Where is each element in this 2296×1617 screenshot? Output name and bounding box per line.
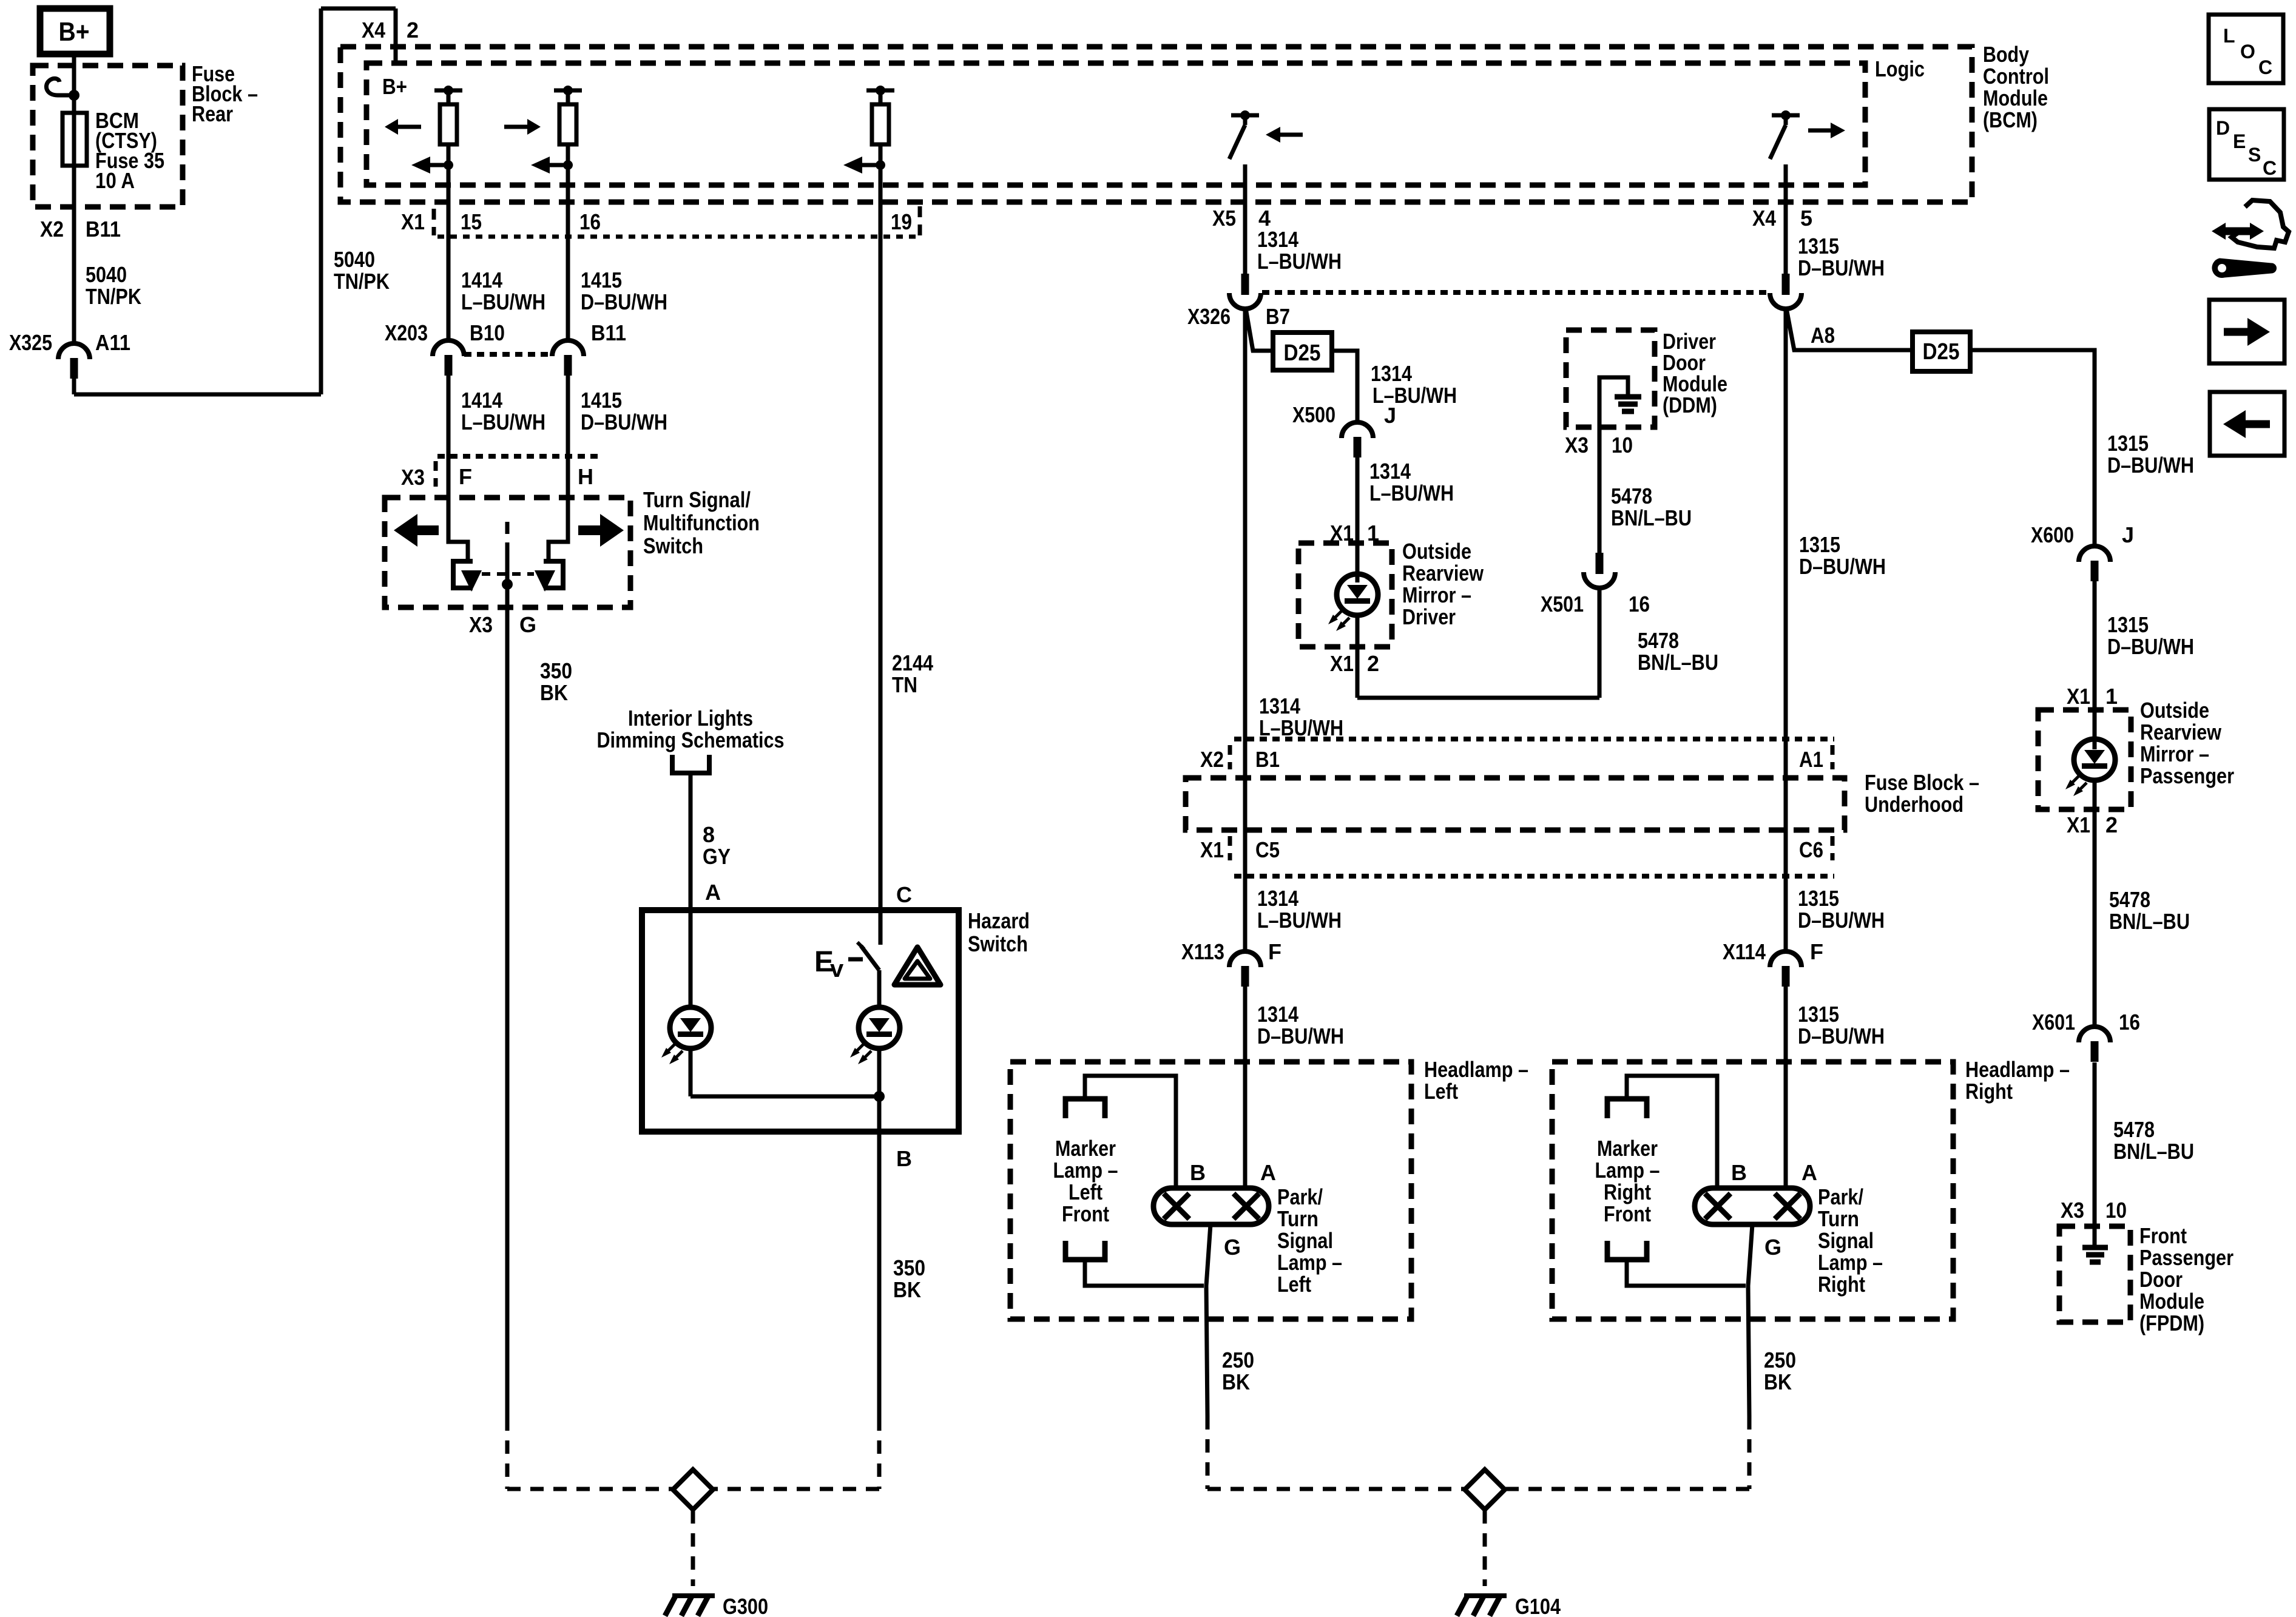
arrow left-turn (solid) (417, 525, 439, 535)
svg-text:L: L (2223, 25, 2235, 47)
icon box DESC (2209, 109, 2284, 180)
switch common link (dashed) with junction (505, 522, 510, 551)
svg-text:Right: Right (1965, 1079, 2013, 1104)
svg-text:BN/L–BU: BN/L–BU (1638, 650, 1718, 675)
wire 1414 L-BU/WH X203 to switch F (447, 374, 451, 542)
svg-text:X2: X2 (40, 217, 64, 241)
wire D25 to X500 (1332, 351, 1357, 421)
svg-text:X4: X4 (1752, 206, 1776, 231)
connector X203 pin B10 (433, 340, 464, 356)
dashed wire splice to G104 (1483, 1510, 1487, 1586)
svg-text:1415: 1415 (581, 388, 622, 413)
wire 1314 through fuse block (left) (1243, 739, 1248, 876)
svg-text:1315: 1315 (1799, 532, 1840, 557)
svg-text:350: 350 (893, 1255, 925, 1280)
svg-text:D25: D25 (1923, 339, 1960, 365)
svg-text:5: 5 (1800, 206, 1812, 231)
arrow right-turn (solid) (578, 525, 600, 535)
ground symbol inside FPDM (2082, 1226, 2108, 1262)
svg-text:X114: X114 (1723, 939, 1766, 964)
svg-text:Switch: Switch (643, 533, 703, 558)
switch contact right (H) (535, 498, 568, 592)
svg-text:(DDM): (DDM) (1663, 393, 1717, 417)
svg-text:Signal: Signal (1277, 1228, 1333, 1253)
svg-text:5040: 5040 (334, 247, 375, 272)
svg-text:G: G (519, 612, 536, 637)
svg-text:Passenger: Passenger (2139, 1245, 2234, 1270)
svg-text:C6: C6 (1799, 837, 1823, 862)
component box Outside Rearview Mirror - Passenger (2038, 710, 2131, 809)
wire A inside hazard switch (689, 910, 693, 1007)
svg-text:1315: 1315 (2107, 612, 2149, 637)
svg-text:X501: X501 (1541, 592, 1584, 616)
svg-text:O: O (2240, 41, 2255, 62)
switch BCM left-turn driver (pin X5-4) (1229, 110, 1259, 202)
svg-text:5478: 5478 (2113, 1117, 2155, 1142)
svg-text:Right: Right (1818, 1272, 1865, 1297)
marker lamp element Left Front (1065, 1099, 1105, 1260)
wire B+ to fuse (72, 95, 76, 113)
connector X326 pin A8 (1782, 274, 1790, 295)
hazard triangle icon (894, 947, 940, 985)
svg-text:1314: 1314 (1369, 459, 1411, 484)
svg-text:Front: Front (1604, 1201, 1651, 1226)
splice diamond (G104 feed) (1465, 1470, 1505, 1510)
svg-text:Outside: Outside (1402, 539, 1471, 564)
svg-text:X4: X4 (362, 18, 385, 42)
svg-text:X601: X601 (2032, 1010, 2075, 1035)
svg-text:D25: D25 (1284, 340, 1321, 366)
svg-text:C5: C5 (1255, 837, 1280, 862)
svg-text:Rearview: Rearview (2140, 720, 2222, 744)
svg-text:5478: 5478 (1611, 484, 1652, 508)
svg-text:X1: X1 (1330, 651, 1354, 676)
svg-text:Park/: Park/ (1277, 1184, 1323, 1209)
svg-text:BK: BK (1222, 1369, 1250, 1394)
connector X2 line (fuse block underhood) (1230, 739, 1834, 769)
svg-text:D–BU/WH: D–BU/WH (581, 289, 667, 314)
svg-text:Headlamp –: Headlamp – (1965, 1057, 2070, 1082)
svg-text:Mirror –: Mirror – (1402, 582, 1471, 607)
svg-text:A1: A1 (1799, 747, 1823, 772)
svg-text:19: 19 (891, 209, 912, 234)
svg-text:Rear: Rear (192, 101, 233, 126)
wire 350 BK from switch to splice (505, 632, 510, 1417)
svg-text:Passenger: Passenger (2140, 763, 2234, 788)
svg-text:Door: Door (2139, 1267, 2183, 1292)
svg-text:F: F (459, 464, 472, 489)
svg-text:A: A (705, 880, 721, 905)
wire 1315 through fuse block (right) (1784, 739, 1788, 876)
svg-text:Switch: Switch (968, 931, 1028, 956)
svg-text:D–BU/WH: D–BU/WH (1257, 1024, 1344, 1048)
wire fuse to X2 pin B11 (72, 166, 76, 343)
connector X1 line (fuse block underhood) (1230, 836, 1834, 876)
svg-text:1315: 1315 (1798, 234, 1839, 258)
wire marker lamp to ground run (right) (1627, 1260, 1746, 1286)
wire 1314 L-BU/WH C5 to X113 (1243, 876, 1248, 951)
wire 1415 D-BU/WH X203 to switch H (566, 374, 570, 542)
icon service tool (arrow + wrench) (2212, 200, 2289, 278)
svg-text:B10: B10 (470, 320, 505, 345)
svg-text:L–BU/WH: L–BU/WH (1257, 249, 1342, 274)
svg-text:1314: 1314 (1257, 1002, 1298, 1027)
wire from B+ into fuse block (72, 54, 76, 95)
svg-text:Hazard: Hazard (968, 908, 1030, 933)
svg-text:X500: X500 (1292, 402, 1335, 427)
resistor R-hazard (BCM internal) (843, 86, 894, 174)
svg-text:Lamp –: Lamp – (1053, 1158, 1118, 1183)
connector X601 pin 16 (2079, 1027, 2110, 1042)
component box Driver Door Module (DDM) (1566, 330, 1655, 427)
svg-text:BK: BK (1764, 1369, 1792, 1394)
svg-text:D–BU/WH: D–BU/WH (2107, 453, 2194, 478)
connector X114 pin F (1770, 951, 1801, 967)
ground symbol inside DDM (1599, 377, 1641, 427)
svg-text:X2: X2 (1200, 747, 1224, 772)
LED indicator lamp right (hazard) (850, 1007, 900, 1064)
svg-text:1315: 1315 (1798, 886, 1839, 911)
svg-text:BN/L–BU: BN/L–BU (2109, 909, 2190, 934)
svg-text:X113: X113 (1181, 939, 1224, 964)
svg-text:Marker: Marker (1055, 1136, 1116, 1161)
svg-text:A11: A11 (95, 330, 130, 355)
svg-text:X3: X3 (469, 612, 493, 637)
svg-text:Interior Lights: Interior Lights (628, 706, 753, 731)
svg-text:X203: X203 (385, 320, 428, 345)
component box Headlamp - Left (1010, 1062, 1411, 1319)
svg-text:B11: B11 (86, 217, 121, 241)
svg-text:Left: Left (1069, 1180, 1102, 1204)
svg-text:BK: BK (893, 1277, 921, 1302)
svg-text:16: 16 (1629, 592, 1650, 616)
svg-text:Front: Front (2139, 1223, 2187, 1248)
arrow left (BCM output indicator) (398, 125, 421, 129)
wire branch to splice D25 (passenger) (1786, 308, 1913, 350)
svg-text:350: 350 (540, 658, 572, 683)
svg-text:1414: 1414 (461, 268, 502, 292)
svg-text:D: D (2216, 117, 2230, 139)
svg-text:10: 10 (2105, 1198, 2127, 1223)
svg-text:15: 15 (461, 209, 482, 234)
switch contact left (F) (448, 498, 482, 592)
wire 1315 main feed to fuse block underhood (1784, 308, 1788, 739)
fuse BCM (CTSY) Fuse 35 10A (62, 113, 87, 166)
splice diamond (G300 feed) (673, 1470, 713, 1510)
marker lamp element Right Front (1607, 1099, 1647, 1260)
icon box LOC (2209, 15, 2283, 83)
wire 1314 X500 to mirror driver (1356, 457, 1360, 582)
svg-text:Left: Left (1424, 1079, 1458, 1104)
wire park/turn B to marker lamp (left) (1085, 1076, 1176, 1188)
component box Fuse Block - Underhood (1186, 778, 1845, 830)
wire 1315 X600 to passenger mirror (2093, 581, 2097, 749)
svg-text:S: S (2248, 144, 2261, 166)
wire mirror X1-2 down (1356, 615, 1360, 698)
wire 5478 BN/L-BU X501 to DDM (1598, 427, 1602, 553)
park/turn signal lamp right (dual filament) (1695, 1188, 1810, 1224)
resistor R-right-turn (BCM internal) (531, 86, 582, 174)
svg-text:Lamp –: Lamp – (1277, 1250, 1342, 1275)
svg-text:2: 2 (1367, 651, 1379, 676)
svg-text:X3: X3 (401, 465, 425, 490)
svg-text:J: J (2122, 522, 2134, 547)
svg-text:B7: B7 (1266, 304, 1290, 329)
svg-text:Mirror –: Mirror – (2140, 741, 2209, 766)
wire 250 BK right lamp to splice (1748, 1224, 1752, 1416)
svg-text:Turn: Turn (1277, 1206, 1319, 1231)
svg-text:1314: 1314 (1259, 694, 1300, 718)
svg-text:X3: X3 (2061, 1198, 2084, 1223)
svg-text:X600: X600 (2031, 522, 2074, 547)
arrow right (BCM output indicator) (504, 125, 527, 129)
svg-text:10 A: 10 A (95, 168, 135, 193)
icon box arrow right (2209, 300, 2284, 363)
ground G300 (665, 1596, 715, 1616)
component box Outside Rearview Mirror - Driver (1298, 543, 1392, 647)
svg-text:v: v (830, 956, 844, 982)
svg-text:1314: 1314 (1257, 886, 1298, 911)
svg-text:1315: 1315 (2107, 431, 2149, 456)
svg-text:L–BU/WH: L–BU/WH (1369, 481, 1454, 505)
wire 1414 L-BU/WH pin 15 to X203 B10 (447, 165, 451, 342)
svg-text:Lamp –: Lamp – (1818, 1250, 1883, 1275)
svg-text:Signal: Signal (1818, 1228, 1874, 1253)
svg-text:D–BU/WH: D–BU/WH (2107, 634, 2194, 659)
connector X203 pin B11 (552, 340, 584, 356)
LED turn indicator (driver mirror) (1328, 574, 1378, 631)
LED indicator lamp left (hazard) (661, 1007, 711, 1064)
ground G104 (1457, 1596, 1507, 1616)
resistor R-left-turn (BCM internal) (411, 86, 462, 174)
svg-text:2: 2 (2105, 812, 2118, 837)
svg-text:C: C (2258, 56, 2272, 78)
wire junction inside hazard switch (690, 1095, 879, 1099)
wire 1315 D-BU/WH X114 to park/turn right (1784, 987, 1788, 1188)
dashed wire splice to G300 (691, 1510, 695, 1586)
component box Hazard Switch (642, 910, 959, 1132)
svg-text:Lamp –: Lamp – (1595, 1158, 1660, 1183)
svg-text:8: 8 (703, 822, 715, 847)
svg-text:C: C (896, 882, 912, 907)
connector X500 pin J (1342, 422, 1373, 438)
svg-text:(BCM): (BCM) (1983, 107, 2038, 132)
svg-text:F: F (1810, 939, 1823, 964)
wire park/turn B to marker lamp (right) (1627, 1076, 1717, 1188)
wire mirror to X601 (2093, 780, 2097, 1027)
svg-text:Headlamp –: Headlamp – (1424, 1057, 1528, 1082)
connector X600 pin J (2079, 546, 2110, 562)
svg-text:16: 16 (2119, 1010, 2140, 1035)
svg-text:X5: X5 (1212, 206, 1236, 231)
svg-text:D–BU/WH: D–BU/WH (1798, 1024, 1885, 1048)
svg-text:Logic: Logic (1875, 56, 1925, 81)
arrow (switch actuation) (1808, 129, 1831, 133)
svg-text:L–BU/WH: L–BU/WH (461, 289, 545, 314)
park/turn signal lamp left (dual filament) (1153, 1188, 1269, 1224)
svg-text:D–BU/WH: D–BU/WH (1798, 908, 1885, 933)
wire 250 BK left lamp to splice (1206, 1224, 1210, 1416)
svg-text:B: B (1190, 1160, 1206, 1185)
component box Turn Signal/Multifunction Switch (385, 498, 630, 607)
svg-text:Body: Body (1983, 42, 2029, 67)
svg-text:Dimming Schematics: Dimming Schematics (597, 727, 785, 752)
switch symbol Ev (hazard) (814, 910, 880, 982)
arrow (switch actuation) (1280, 133, 1303, 137)
svg-text:BN/L–BU: BN/L–BU (2113, 1139, 2194, 1164)
svg-text:1414: 1414 (461, 388, 502, 413)
svg-text:C: C (2263, 157, 2277, 179)
svg-text:250: 250 (1222, 1348, 1254, 1372)
svg-text:G104: G104 (1515, 1594, 1561, 1617)
svg-text:16: 16 (579, 209, 601, 234)
svg-text:X1: X1 (2067, 812, 2090, 837)
off-page bracket symbol (672, 755, 709, 773)
svg-text:TN/PK: TN/PK (334, 269, 390, 294)
switch BCM right-turn driver (pin X4-5) (1770, 110, 1800, 202)
svg-text:5040: 5040 (86, 262, 127, 287)
svg-text:E: E (2233, 130, 2246, 152)
svg-text:10: 10 (1612, 433, 1633, 457)
connector X325 pin A11 (58, 343, 90, 359)
svg-text:Rearview: Rearview (1402, 561, 1484, 586)
circuit breaker hook symbol (46, 78, 74, 95)
svg-text:G: G (1224, 1235, 1241, 1260)
svg-text:B+: B+ (59, 17, 90, 47)
svg-text:GY: GY (703, 844, 731, 869)
svg-text:Underhood: Underhood (1865, 792, 1963, 817)
svg-text:1415: 1415 (581, 268, 622, 292)
svg-text:X1: X1 (1200, 837, 1224, 862)
connector strip X1 pins 15,16,19 (434, 206, 920, 237)
svg-text:Marker: Marker (1597, 1136, 1658, 1161)
svg-text:Turn Signal/: Turn Signal/ (643, 487, 751, 512)
icon box arrow left (2210, 392, 2284, 456)
svg-text:B11: B11 (591, 320, 626, 345)
svg-text:D–BU/WH: D–BU/WH (581, 410, 667, 434)
svg-text:H: H (578, 464, 593, 489)
svg-text:B1: B1 (1255, 747, 1280, 772)
connector X326 pin B7 (1241, 274, 1249, 295)
svg-text:2: 2 (407, 18, 419, 42)
svg-text:1315: 1315 (1798, 1002, 1839, 1027)
svg-text:Module: Module (2139, 1289, 2204, 1314)
svg-text:G: G (1764, 1235, 1781, 1260)
connector X203 body line (464, 352, 552, 357)
svg-text:X1: X1 (401, 209, 425, 234)
svg-text:TN/PK: TN/PK (86, 284, 141, 309)
svg-text:Control: Control (1983, 64, 2049, 89)
svg-text:A: A (1260, 1160, 1276, 1185)
wire marker lamp to ground run (left) (1085, 1260, 1204, 1286)
svg-text:X325: X325 (9, 330, 52, 355)
wire 1314 L-BU/WH pin X5-4 to X326 B7 (1243, 164, 1248, 274)
wire 2144 TN pin 19 to hazard switch C (879, 165, 883, 945)
wire D25 to X600 (1970, 350, 2095, 545)
svg-text:TN: TN (892, 672, 917, 697)
svg-text:5478: 5478 (1638, 628, 1679, 653)
wire hazard B out (877, 1096, 882, 1152)
wire C to LED right (877, 970, 882, 1007)
splice box D25 (driver) (1273, 333, 1332, 370)
wire 8 GY to hazard switch A (689, 773, 693, 910)
connector X326 body line (1262, 290, 1769, 295)
svg-text:A: A (1801, 1160, 1817, 1185)
component box BCM logic inner (366, 63, 1865, 185)
svg-text:1314: 1314 (1257, 227, 1298, 252)
svg-text:A8: A8 (1811, 323, 1835, 348)
svg-text:5478: 5478 (2109, 887, 2150, 912)
wire 1314 D-BU/WH X113 to park/turn left (1243, 987, 1248, 1188)
svg-text:250: 250 (1764, 1348, 1796, 1372)
svg-text:B: B (1731, 1160, 1747, 1185)
svg-text:1314: 1314 (1371, 361, 1412, 386)
wire branch to splice D25 (driver) (1246, 308, 1273, 351)
svg-text:Outside: Outside (2140, 698, 2209, 723)
svg-text:Front: Front (1062, 1201, 1109, 1226)
LED turn indicator (passenger mirror) (2065, 739, 2115, 796)
svg-text:X3: X3 (1565, 433, 1589, 457)
wire 1314 main feed X326 to fuse block underhood (1243, 308, 1248, 739)
wire 1315 D-BU/WH pin X4-5 to X326 A8 (1784, 164, 1788, 274)
svg-text:D–BU/WH: D–BU/WH (1798, 255, 1885, 280)
component box Fuse Block - Rear (33, 66, 183, 207)
connector X113 pin F (1229, 951, 1261, 967)
svg-text:BK: BK (540, 680, 568, 705)
wire 1415 D-BU/WH pin 16 to X203 B11 (566, 165, 570, 342)
svg-text:X1: X1 (2067, 684, 2090, 709)
svg-text:Left: Left (1277, 1272, 1311, 1297)
wire mirror to X501 (bottom run) (1357, 696, 1599, 700)
wire 5040 TN/PK from X325 to BCM X4-2 (72, 379, 76, 394)
component box Headlamp - Right (1552, 1062, 1953, 1319)
power symbol B+ box (40, 8, 110, 54)
wire 1315 D-BU/WH C6 to X114 (1784, 876, 1788, 951)
svg-text:Right: Right (1604, 1180, 1651, 1204)
component box Front Passenger Door Module (FPDM) (2059, 1226, 2130, 1322)
svg-text:L–BU/WH: L–BU/WH (461, 410, 545, 434)
connector strip X3 pins F,H (436, 456, 599, 487)
svg-text:B+: B+ (382, 74, 407, 99)
svg-text:L–BU/WH: L–BU/WH (1259, 715, 1343, 740)
wire switch common to X3 G (505, 551, 510, 632)
svg-text:(FPDM): (FPDM) (2139, 1311, 2204, 1335)
svg-text:Park/: Park/ (1818, 1184, 1863, 1209)
svg-text:Fuse Block –: Fuse Block – (1865, 770, 1979, 795)
splice box D25 (passenger) (1913, 332, 1970, 371)
svg-text:BN/L–BU: BN/L–BU (1611, 505, 1692, 530)
wire 5478 BN/L-BU X601 to FPDM (2093, 1062, 2097, 1226)
svg-text:Multifunction: Multifunction (643, 510, 760, 535)
svg-text:1: 1 (2105, 684, 2118, 709)
connector X501 pin 16 (1596, 553, 1604, 574)
svg-text:D–BU/WH: D–BU/WH (1799, 554, 1886, 579)
svg-text:J: J (1384, 403, 1396, 428)
svg-text:Driver: Driver (1402, 604, 1456, 629)
svg-text:L–BU/WH: L–BU/WH (1257, 908, 1342, 933)
wire 350 BK hazard to splice (877, 1152, 882, 1417)
component box Body Control Module (BCM) outer (340, 47, 1972, 202)
svg-text:B: B (896, 1146, 912, 1171)
svg-text:Module: Module (1983, 86, 2048, 110)
svg-text:Turn: Turn (1818, 1206, 1859, 1231)
svg-text:G300: G300 (723, 1594, 768, 1617)
svg-text:F: F (1268, 939, 1281, 964)
svg-text:X326: X326 (1187, 304, 1231, 329)
svg-text:2144: 2144 (892, 650, 933, 675)
